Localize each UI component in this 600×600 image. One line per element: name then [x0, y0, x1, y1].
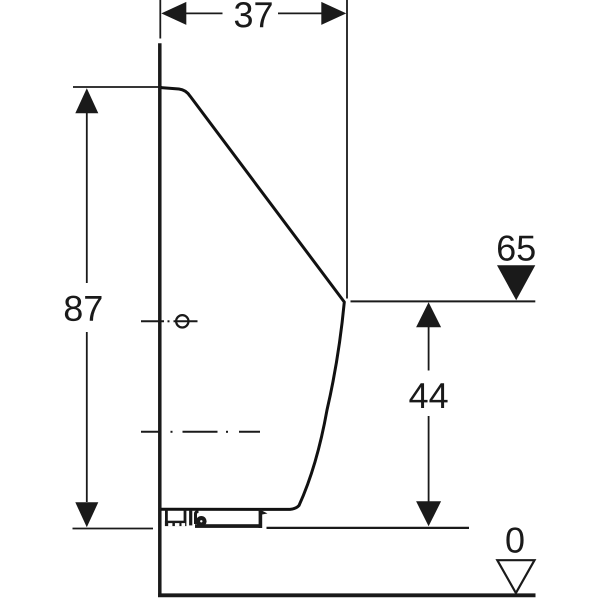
- label 87: [65, 296, 102, 321]
- extension line right (37): [346, 0, 348, 299]
- level line 44 bottom: [267, 527, 470, 529]
- flange right riser: [259, 510, 263, 529]
- dimension line 37 right segment: [278, 12, 322, 14]
- dimension line 87 upper segment: [86, 112, 88, 283]
- label 65: [498, 235, 535, 260]
- label 44: [409, 383, 447, 408]
- level marker 0 open triangle: [497, 560, 534, 593]
- inlet circle: [176, 315, 188, 327]
- dimension line 87 lower segment: [86, 332, 88, 502]
- tick bottom 87: [73, 528, 154, 530]
- arrow 37 right: [321, 2, 346, 25]
- bracket vertical tab 1: [189, 510, 192, 525]
- drain flange bar: [195, 524, 261, 528]
- arrow 44 down: [416, 501, 441, 526]
- arrow 87 up: [75, 88, 98, 113]
- tick top 87: [73, 86, 162, 88]
- floor line: [158, 593, 536, 597]
- mounting bracket rectangle: [165, 510, 168, 522]
- level line 65: [351, 300, 536, 302]
- dimension line 44 upper segment: [428, 327, 430, 371]
- bracket vertical tab 2: [196, 512, 199, 525]
- arrow 44 up: [416, 302, 441, 327]
- outlet centerline dash-dot: [141, 431, 260, 433]
- level marker 65 filled triangle: [497, 265, 535, 300]
- dimension line 37 left segment: [186, 12, 223, 14]
- inlet centerline segment: [141, 320, 164, 322]
- flange hook diagonal: [259, 509, 268, 515]
- inlet centerline dot: [168, 320, 170, 322]
- inlet centerline through circle: [174, 320, 198, 322]
- drain screw circle: [196, 516, 207, 527]
- bracket bottom bar with dashed notches: [165, 521, 187, 526]
- label 0: [506, 527, 523, 552]
- urinal outline: [161, 88, 344, 510]
- arrow 37 left: [161, 2, 186, 25]
- dimension line 44 lower segment: [428, 416, 430, 502]
- arrow 87 down: [75, 502, 98, 527]
- extension line left (37): [159, 0, 161, 39]
- label 37: [235, 2, 272, 27]
- wall line: [158, 43, 162, 597]
